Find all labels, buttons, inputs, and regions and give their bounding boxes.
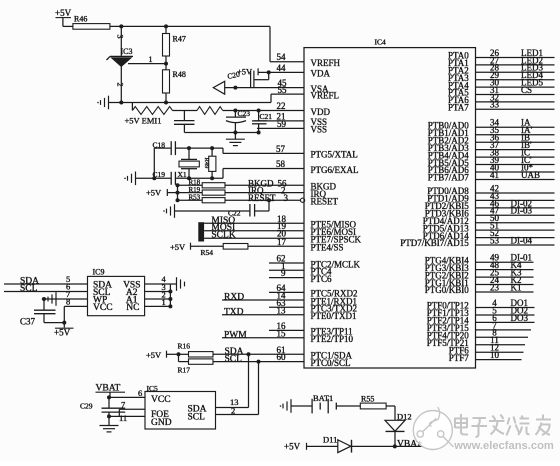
pin 49 PTG4/KBI4 net DI-01 (425, 253, 534, 266)
wire VREFH pin 54 (drop from top rail) (269, 26, 271, 61)
junction SCL/IC5 (257, 360, 261, 364)
svg-text:X1: X1 (178, 170, 187, 179)
ground (reset cap) (174, 204, 176, 218)
svg-text:VCC: VCC (93, 303, 113, 313)
svg-text:VSS: VSS (311, 125, 328, 135)
pin 30 PTA4 net LED5 (448, 78, 554, 91)
wire VSA pin 45 (225, 87, 304, 89)
svg-text:BAT1: BAT1 (313, 393, 333, 403)
wire IC9 ground leg (169, 284, 171, 306)
junction VBAT backup node (393, 444, 397, 448)
wire +5V to R46 (63, 25, 73, 27)
svg-text:RXD: RXD (224, 293, 244, 303)
svg-text:PTD7/KBI7/AD15: PTD7/KBI7/AD15 (400, 238, 469, 248)
wire IC9 A1 pin 2 (145, 298, 171, 300)
pin 12 PTF6 (449, 343, 524, 356)
svg-text:R17: R17 (178, 365, 191, 374)
svg-text:SCL: SCL (20, 284, 38, 294)
svg-text:CS: CS (521, 85, 532, 95)
wire IC9 VCC pin 8 (64, 305, 87, 307)
capacitor EMI filter (mid) (183, 111, 185, 121)
IC4 left-side pin names (311, 58, 362, 368)
wire IC5 FOE pin 7 (119, 408, 145, 410)
wire battery to R55 (336, 405, 360, 407)
svg-text:C21: C21 (260, 112, 273, 121)
pin 37 PTB3/AD3 net IB' (428, 140, 555, 153)
svg-text:57: 57 (276, 144, 286, 154)
wire crystal top node (154, 147, 171, 149)
junction C37/+5V/VCC (62, 321, 66, 325)
pin 46 PTD2/KBI5 net DI-02 (425, 198, 555, 211)
wire pin 1 (269, 269, 304, 271)
svg-text:53: 53 (490, 235, 500, 245)
svg-text:R47: R47 (173, 35, 186, 44)
svg-text:54: 54 (277, 52, 287, 62)
wire VSS pin 21 (254, 120, 304, 122)
svg-text:IC9: IC9 (93, 268, 105, 277)
svg-text:7: 7 (121, 400, 125, 410)
wire XTAL pin 57 (222, 148, 224, 153)
svg-text:PTG6/EXAL: PTG6/EXAL (311, 165, 359, 175)
wire IC5 SCL pin 2 (216, 414, 259, 416)
wire IC5 VCC pin 6 (109, 396, 145, 398)
inductor EMI1 first winding (131, 103, 133, 111)
wire analog ground rail to VREFL (109, 102, 272, 104)
wire filter ground rail (184, 132, 258, 134)
wire IC5 GND pin 11 (109, 415, 145, 417)
svg-text:PTG0/KBI0: PTG0/KBI0 (425, 285, 470, 295)
svg-text:10: 10 (490, 350, 500, 360)
pin 35 PTB1/AD1 net IA' (428, 125, 555, 138)
svg-text:PTG5/XTAL: PTG5/XTAL (311, 150, 358, 160)
wire IC9 A2 pin 3 (145, 291, 171, 293)
wire SS pin 17 (248, 245, 304, 247)
pin 39 PTB5/AD5 net IC' (428, 155, 555, 168)
pin 48 PTG3/KBI3 net K4 (425, 260, 534, 273)
pin 6 PTF2/TP14 net DO3 (427, 313, 535, 326)
pin 38 PTB4/AD4 net IC (428, 148, 555, 161)
svg-text:13: 13 (277, 305, 287, 315)
svg-text:60: 60 (277, 352, 287, 362)
reset active-low bubble (301, 198, 305, 202)
pin 31 PTA5 net CS (448, 85, 554, 98)
IC IC4 body (304, 48, 476, 368)
junction VBAT/C29 (107, 395, 111, 399)
svg-text:VDA: VDA (311, 69, 331, 79)
wire D11 to VBAT node (352, 445, 431, 447)
wire VDA pin 44 (258, 71, 304, 73)
junction VDD/C23 (233, 109, 237, 113)
svg-text:15: 15 (277, 328, 287, 338)
svg-text:VDD: VDD (311, 107, 331, 117)
wire IC5 SDA pin 13 (216, 407, 249, 409)
pin 8 PTF4/TP20 (427, 328, 528, 341)
connector BDM header (198, 222, 204, 241)
watermark logo disc (413, 407, 453, 450)
svg-text:55: 55 (278, 85, 288, 95)
svg-text:44: 44 (277, 63, 287, 73)
svg-text:K1: K1 (511, 282, 522, 292)
wire R55 to D12 (386, 405, 395, 407)
svg-text:R46: R46 (74, 15, 87, 24)
svg-text:UAB: UAB (521, 170, 540, 180)
pin 24 PTG1/KBI1 net K2 (425, 275, 534, 288)
svg-text:DO3: DO3 (511, 313, 529, 323)
svg-text:6: 6 (138, 388, 142, 398)
svg-text:R16: R16 (178, 341, 191, 350)
wire D12 to VBAT node (394, 431, 396, 446)
svg-text:DI-04: DI-04 (511, 235, 533, 245)
junction VDD/C21 (257, 109, 261, 113)
wire VSS pin 59 (257, 127, 304, 129)
svg-text:IC4: IC4 (375, 37, 387, 46)
wire SDA drop to IC5 (248, 354, 250, 407)
svg-text:9: 9 (281, 268, 286, 278)
wire pin 16 (269, 329, 304, 331)
svg-text:RESET: RESET (248, 193, 276, 203)
pin 27 PTA1 net LED2 (448, 55, 554, 68)
svg-text:VREFH: VREFH (311, 58, 341, 68)
svg-text:C29: C29 (80, 402, 93, 411)
wire IC9 WP pin 7 (42, 298, 88, 300)
analog reference arrow (VSA) (213, 81, 224, 94)
wire IC9 VSS pin 4 (145, 283, 171, 285)
ground (regulator) (108, 96, 110, 110)
pin 11 PTF5/TP21 (427, 335, 525, 348)
pin 26 PTA0 net LED1 (448, 48, 554, 61)
junction SDA/IC5 (247, 352, 251, 356)
svg-text:11: 11 (119, 413, 127, 423)
pin 34 PTB0/AD0 net IA (428, 118, 555, 131)
IC IC9 body (88, 276, 145, 315)
svg-text:PTC6: PTC6 (311, 274, 333, 284)
svg-text:8: 8 (66, 297, 70, 307)
wire pin 64 (269, 291, 304, 293)
svg-text:PTE2/TP10: PTE2/TP10 (311, 334, 354, 344)
svg-text:1: 1 (162, 297, 166, 307)
wire +5V to D11 (307, 445, 338, 447)
pin 7 PTF3/TP15 (427, 320, 531, 333)
pin 53 PTD7/KBI7/AD15 net DI-04 (400, 235, 554, 248)
pin 52 PTD6/AD14 (423, 228, 555, 241)
svg-text:R54: R54 (201, 248, 214, 257)
wire EXAL pin 58 (222, 169, 224, 179)
svg-text:2: 2 (116, 83, 125, 87)
pin 36 PTB2/AD2 net IB (428, 133, 555, 146)
svg-text:PTC0/SCL: PTC0/SCL (311, 358, 351, 368)
ground (crystal) (135, 172, 137, 186)
svg-text:3: 3 (284, 193, 289, 203)
svg-text:DI-03: DI-03 (511, 206, 533, 216)
pin 29 PTA3 net LED4 (448, 70, 554, 83)
svg-text:R55: R55 (361, 395, 374, 404)
svg-text:+5V: +5V (146, 188, 162, 198)
svg-text:PTE4/SS: PTE4/SS (311, 243, 344, 253)
svg-text:PTB7/AD7: PTB7/AD7 (428, 173, 470, 183)
pin 28 PTA2 net LED3 (448, 63, 554, 76)
wire pin 62 (269, 262, 304, 264)
svg-text:17: 17 (277, 237, 287, 247)
pin 41 PTB7/AD7 net UAB (428, 170, 555, 183)
junction node top rail / IC3 (119, 24, 123, 28)
svg-text:SCL: SCL (225, 354, 243, 364)
svg-text:SCLK: SCLK (211, 231, 235, 241)
pin 23 PTG0/KBI0 net K1 (425, 282, 534, 295)
svg-text:+5V: +5V (54, 328, 71, 338)
svg-text:23: 23 (490, 282, 500, 292)
ground (battery) (290, 399, 292, 413)
svg-text:PTE0/TXD1: PTE0/TXD1 (311, 311, 357, 321)
wire pin 63 (269, 306, 304, 308)
pin 33 PTA7 (448, 100, 554, 113)
svg-text:IC3: IC3 (121, 47, 133, 56)
wire crystal bottom node (136, 177, 172, 179)
svg-text:+5V EMI1: +5V EMI1 (125, 116, 162, 126)
svg-text:R53: R53 (189, 194, 201, 202)
pin 47 PTD3/KBI6 net DI-03 (425, 206, 555, 219)
junction GND/C29 (107, 414, 111, 418)
svg-text:VREFL: VREFL (311, 90, 340, 100)
junction VDA/C20 (267, 70, 271, 74)
svg-text:SCL: SCL (188, 413, 206, 423)
wire C18/C19 left leg (153, 148, 155, 178)
svg-text:59: 59 (277, 119, 287, 129)
pin 25 PTG2/KBI2 net K3 (425, 268, 534, 281)
svg-text:D11: D11 (323, 435, 337, 445)
wire RESET net (225, 199, 301, 201)
ground (IC5) (108, 416, 110, 425)
svg-text:+5V: +5V (284, 442, 301, 452)
svg-text:41: 41 (490, 170, 499, 180)
svg-text:PTA7: PTA7 (448, 103, 469, 113)
wire IRQ net (225, 192, 304, 194)
pin 43 PTD1/AD9 (427, 191, 554, 204)
svg-text:2: 2 (231, 406, 235, 416)
wire battery negative (291, 405, 312, 407)
wire VREFL pin 55 (271, 93, 304, 95)
svg-text:PTF7: PTF7 (449, 353, 470, 363)
ground (filter) (234, 133, 236, 140)
svg-text:C37: C37 (20, 317, 36, 327)
svg-text:R48: R48 (173, 70, 186, 79)
wire BKGD net (225, 184, 304, 186)
svg-text:VCC: VCC (151, 395, 171, 405)
svg-text:22: 22 (277, 101, 286, 111)
junction node top rail / R47 (164, 24, 168, 28)
svg-text:RESET: RESET (311, 197, 339, 207)
junction WP/C37 (42, 297, 46, 301)
svg-text:58: 58 (276, 159, 286, 169)
pin 4 PTF0/TP12 net DO1 (427, 298, 535, 311)
wire VDD pin 22 (223, 110, 304, 112)
junction RESET/C22 (267, 198, 271, 202)
inductor EMI1 second winding (197, 107, 223, 115)
pin 50 PTD4/AD12 (423, 213, 555, 226)
svg-text:33: 33 (490, 100, 500, 110)
power +5V (IC9) (63, 323, 65, 328)
wire IC3 cathode (120, 26, 122, 56)
ground (IC9 WP) (55, 292, 57, 306)
junction pull-up node (177, 352, 181, 356)
pin 10 PTF7 (449, 350, 522, 363)
svg-text:+5V: +5V (146, 350, 162, 360)
svg-text:GND: GND (151, 418, 172, 428)
pin 51 PTD5/AD13 (423, 221, 555, 234)
svg-text:www.elecfans.com: www.elecfans.com (453, 440, 554, 452)
wire between windings (173, 110, 198, 112)
pin 5 PTF1/TP13 net DO2 (427, 305, 535, 318)
svg-text:1: 1 (149, 55, 153, 64)
svg-text:3: 3 (116, 35, 125, 39)
wire SCL drop to IC5 (258, 362, 260, 415)
svg-text:+5V: +5V (55, 8, 72, 18)
watermark brand characters (456, 415, 552, 438)
pin 42 PTD0/AD8 (427, 183, 554, 196)
wire pull-up bus (177, 185, 179, 200)
svg-text:+5V: +5V (170, 242, 186, 252)
junction R47/R48/ref (164, 62, 168, 66)
wire IC9 NC pin 1 (145, 305, 171, 307)
IC IC5 body (145, 392, 216, 430)
svg-text:NC: NC (126, 303, 139, 313)
svg-text:TXD: TXD (224, 307, 244, 317)
pin 32 PTA6 (448, 92, 554, 105)
wire IC3 anode to ground rail (120, 66, 122, 102)
svg-text:PWM: PWM (224, 330, 247, 340)
ground (IC9 right) (176, 277, 178, 291)
wire top rail R46 to pin54 drop (110, 25, 270, 27)
wire pin 9 (269, 277, 304, 279)
pin 40 PTB6/AD6 net I0* (428, 162, 555, 175)
